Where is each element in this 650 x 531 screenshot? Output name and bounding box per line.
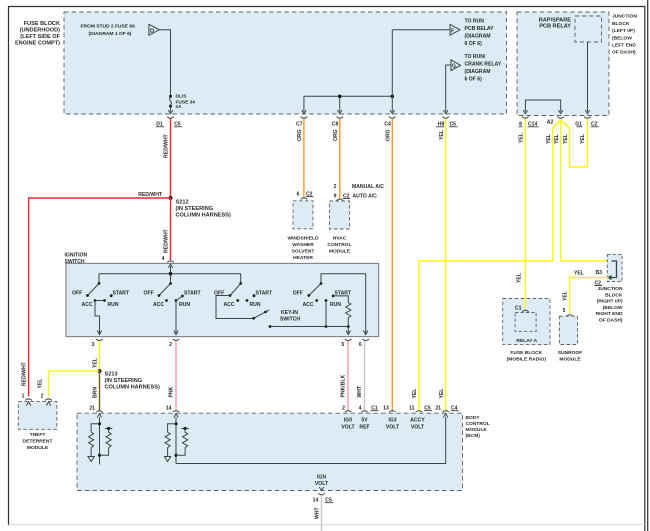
svg-text:(IN STEERING: (IN STEERING xyxy=(105,378,143,384)
svg-text:YEL: YEL xyxy=(574,271,584,277)
wire WHT ignition 6 to BCM 4 xyxy=(364,341,366,412)
HVAC control module box xyxy=(330,201,350,229)
svg-text:PNK/BLK: PNK/BLK xyxy=(341,375,347,398)
wire RED/WHT fuse to S212 xyxy=(170,119,172,198)
wire RED/WHT S212 to theft deterrent module xyxy=(29,198,171,397)
windshield washer solvent heater label xyxy=(288,236,319,262)
svg-text:OFF: OFF xyxy=(72,290,82,296)
svg-text:(IN STEERING: (IN STEERING xyxy=(176,206,214,212)
BCM label xyxy=(466,415,490,439)
svg-text:F: F xyxy=(451,28,454,34)
BCM input labels xyxy=(341,418,425,431)
svg-text:MODULE: MODULE xyxy=(466,427,488,433)
svg-text:OFF: OFF xyxy=(144,290,154,296)
wire YEL ignition 3 to S213 xyxy=(99,341,101,371)
BCM entry 14 xyxy=(166,406,179,413)
svg-text:PNK: PNK xyxy=(169,386,175,397)
svg-text:WHT: WHT xyxy=(357,385,363,397)
svg-text:COLUMN HARNESS): COLUMN HARNESS) xyxy=(176,213,231,219)
svg-text:TO RUN/: TO RUN/ xyxy=(465,54,486,60)
svg-text:ORG: ORG xyxy=(385,129,391,141)
wire WHT IGN VOLT xyxy=(321,496,323,531)
svg-text:BLOCK: BLOCK xyxy=(612,21,630,27)
svg-text:MODULE: MODULE xyxy=(329,249,351,255)
svg-text:S212: S212 xyxy=(176,200,189,206)
BCM entry arrows 21 14 21C4 xyxy=(97,414,448,418)
wire ORG C8 to HVAC xyxy=(339,119,341,200)
BCM entry 13 C1 xyxy=(371,406,396,413)
svg-text:AUTO A/C: AUTO A/C xyxy=(353,193,378,199)
svg-text:ORG: ORG xyxy=(297,129,303,141)
svg-text:DLIS: DLIS xyxy=(176,94,188,100)
svg-text:YEL: YEL xyxy=(517,273,523,283)
svg-text:VOLT: VOLT xyxy=(341,425,355,431)
splice S213 xyxy=(98,369,160,390)
svg-text:HEATER: HEATER xyxy=(293,255,313,261)
svg-text:ACC: ACC xyxy=(153,302,164,308)
wire YEL A2 right to G1 xyxy=(561,119,588,167)
theft deterrent module box xyxy=(18,402,57,430)
svg-text:OF DASH): OF DASH) xyxy=(599,318,623,324)
svg-text:BRN: BRN xyxy=(93,387,99,398)
svg-text:G: G xyxy=(452,64,456,70)
svg-text:(RIGHT I/P): (RIGHT I/P) xyxy=(597,299,623,305)
svg-text:RED/WHT: RED/WHT xyxy=(164,133,170,158)
fuse DLIS FUSE 34 2A xyxy=(168,95,172,114)
BCM entry 11 C5 xyxy=(409,406,432,413)
svg-text:6 OF 6): 6 OF 6) xyxy=(465,77,483,83)
fuse block (underhood) label xyxy=(15,21,61,47)
svg-text:IG3: IG3 xyxy=(388,418,396,424)
svg-text:MANUAL A/C: MANUAL A/C xyxy=(352,184,384,190)
junction block (right) box xyxy=(607,254,622,281)
svg-text:4: 4 xyxy=(359,406,362,412)
svg-text:(MOBILE RADIO): (MOBILE RADIO) xyxy=(507,357,547,363)
relay A box xyxy=(515,313,536,332)
sunroof module box xyxy=(559,316,577,344)
svg-text:YEL: YEL xyxy=(563,291,569,301)
svg-text:RUN: RUN xyxy=(179,302,190,308)
svg-text:IGN: IGN xyxy=(317,475,326,481)
junction block (right) label xyxy=(596,286,623,324)
junction block internal bracket xyxy=(523,100,563,114)
ignition switch label xyxy=(65,253,88,266)
connector entry 4 (ignition switch) xyxy=(162,256,174,262)
ignition switch box xyxy=(66,263,379,336)
svg-text:WASHER: WASHER xyxy=(292,242,314,248)
top box internal wires to C7 C8 C4 xyxy=(302,30,450,114)
svg-text:1: 1 xyxy=(22,394,25,400)
svg-text:MODULE: MODULE xyxy=(559,357,581,363)
svg-text:RED/WHT: RED/WHT xyxy=(164,228,170,253)
wire YEL S213 to theft deterrent 2 xyxy=(49,371,100,396)
svg-text:13: 13 xyxy=(383,406,389,412)
svg-text:RELAY A: RELAY A xyxy=(516,338,537,344)
RAP/SPARE PCB relay box xyxy=(575,16,602,42)
wire YEL C2 to sunroof module xyxy=(570,278,609,314)
BCM entry 21 C4 xyxy=(435,406,458,413)
connector exit D1 C5 xyxy=(156,117,182,128)
svg-text:IGNITION: IGNITION xyxy=(65,253,88,259)
wire 4 entry into bus xyxy=(168,264,172,274)
svg-text:YEL: YEL xyxy=(439,389,445,399)
rap/spare relay wire to G1 xyxy=(585,42,589,114)
svg-text:(BCM): (BCM) xyxy=(466,433,481,439)
switch 3 xyxy=(214,274,273,308)
svg-text:VOLT: VOLT xyxy=(411,425,425,431)
svg-text:14: 14 xyxy=(166,406,172,412)
svg-text:A2: A2 xyxy=(547,120,554,126)
switch 1 xyxy=(72,274,130,335)
svg-text:BLOCK: BLOCK xyxy=(605,292,623,298)
svg-text:RIGHT END: RIGHT END xyxy=(596,311,623,317)
svg-text:OF DASH): OF DASH) xyxy=(612,50,636,56)
svg-text:6: 6 xyxy=(297,191,300,197)
svg-text:YEL: YEL xyxy=(38,379,44,389)
junction block (top) box xyxy=(517,12,609,116)
svg-text:YEL: YEL xyxy=(519,133,525,143)
wire ORG C7 to washer heater xyxy=(303,119,305,199)
svg-text:14: 14 xyxy=(313,498,319,504)
svg-text:ACCY: ACCY xyxy=(410,418,425,424)
wire ORG C4 to BCM 13 xyxy=(391,119,393,412)
junction block (right) internal connector xyxy=(607,261,617,280)
svg-text:CRANK RELAY: CRANK RELAY xyxy=(465,62,502,68)
connector exits ignition switch 3 2 5 6 xyxy=(92,339,369,348)
svg-text:MODULE: MODULE xyxy=(27,445,49,451)
IGN VOLT exit xyxy=(313,487,333,504)
fuse block (mobile radio) label xyxy=(507,350,547,363)
svg-text:COLUMN HARNESS): COLUMN HARNESS) xyxy=(105,385,160,391)
key-in switch label xyxy=(280,310,300,322)
sunroof module label xyxy=(558,350,582,363)
svg-text:C8: C8 xyxy=(332,122,339,128)
svg-text:WHT: WHT xyxy=(315,507,321,519)
svg-text:11: 11 xyxy=(409,406,415,412)
wire PNK ignition 2 to BCM 14 xyxy=(175,341,177,412)
svg-text:HVAC: HVAC xyxy=(333,236,347,242)
svg-text:JUNCTION: JUNCTION xyxy=(598,286,623,292)
svg-text:PCB RELAY: PCB RELAY xyxy=(465,26,495,32)
svg-text:2: 2 xyxy=(41,394,44,400)
svg-text:YEL: YEL xyxy=(554,134,560,144)
connector exits C7 C8 C4 H8 C5 xyxy=(296,117,458,128)
svg-text:YEL: YEL xyxy=(563,134,569,144)
switch 4 start contact and resistor xyxy=(332,295,351,335)
washer heater connector 6 C2 xyxy=(297,191,314,199)
wire YEL A2 middle to junction block B3 xyxy=(561,120,612,261)
svg-text:2: 2 xyxy=(169,342,172,348)
svg-text:WINDSHIELD: WINDSHIELD xyxy=(288,236,319,242)
node bus/wire4 xyxy=(169,272,173,276)
key-in switch wiring xyxy=(216,296,269,320)
BCM entry 21 xyxy=(89,406,102,413)
svg-text:C7: C7 xyxy=(296,122,303,128)
svg-text:DETERRENT: DETERRENT xyxy=(23,439,53,445)
svg-text:IG0: IG0 xyxy=(344,418,352,424)
wire YEL 8 C14 to relay A C1 xyxy=(524,119,526,308)
svg-text:C1: C1 xyxy=(515,306,522,312)
svg-text:LEFT END: LEFT END xyxy=(612,43,636,49)
svg-text:(BELOW: (BELOW xyxy=(612,35,632,41)
BCM entry 2 xyxy=(342,406,351,413)
BCM box xyxy=(77,413,463,490)
BCM resistor network 2 xyxy=(165,417,189,464)
svg-text:RED/WHT: RED/WHT xyxy=(22,361,28,386)
svg-text:CONTROL: CONTROL xyxy=(327,242,351,248)
connector exits 8 C14 / A2 / G1 C2 xyxy=(519,117,599,128)
svg-text:YEL: YEL xyxy=(580,134,586,144)
svg-text:THEFT: THEFT xyxy=(30,432,46,438)
svg-text:YEL: YEL xyxy=(93,358,99,368)
svg-text:4: 4 xyxy=(162,256,165,262)
svg-text:9: 9 xyxy=(334,193,337,199)
svg-text:RUN: RUN xyxy=(330,302,341,308)
svg-text:YEL: YEL xyxy=(439,130,445,140)
svg-text:2: 2 xyxy=(342,406,345,412)
wire BRN S213 to BCM 21 xyxy=(99,371,101,411)
wire YEL into relay A xyxy=(524,299,526,309)
splice S212 xyxy=(169,196,231,219)
wire to run/crank relay xyxy=(444,65,452,114)
wire YEL H8 to BCM 21 C4 xyxy=(445,119,447,412)
svg-text:YEL: YEL xyxy=(412,389,418,399)
wire RED/WHT S212 to ignition switch xyxy=(170,198,172,260)
svg-text:6 OF 6): 6 OF 6) xyxy=(465,41,483,47)
wire from triangle D to fuse xyxy=(159,30,170,95)
switch 2 xyxy=(144,274,202,335)
switch 4 xyxy=(293,274,368,335)
ignition bus wire xyxy=(99,273,241,275)
theft deterrent connector entries 1 2 xyxy=(22,394,52,401)
svg-text:2: 2 xyxy=(334,184,337,190)
svg-text:REF: REF xyxy=(359,425,369,431)
svg-text:6: 6 xyxy=(359,342,362,348)
svg-text:B3: B3 xyxy=(596,270,603,276)
svg-text:FROM STUD 2 FUSE 66: FROM STUD 2 FUSE 66 xyxy=(81,24,136,30)
svg-text:SWITCH: SWITCH xyxy=(280,316,300,322)
svg-text:FUSE BLOCK: FUSE BLOCK xyxy=(24,21,60,27)
svg-text:ACC: ACC xyxy=(303,302,314,308)
svg-text:START: START xyxy=(113,290,130,296)
to run/crank relay label xyxy=(465,54,502,83)
svg-text:OFF: OFF xyxy=(293,290,303,296)
svg-text:3: 3 xyxy=(92,342,95,348)
svg-text:SOLVENT: SOLVENT xyxy=(292,249,315,255)
svg-text:YEL: YEL xyxy=(546,134,552,144)
wire PNK/BLK ignition 5 to BCM 2 xyxy=(347,341,349,412)
svg-text:(UNDERHOOD): (UNDERHOOD) xyxy=(20,28,61,34)
windshield washer solvent heater box xyxy=(293,201,313,229)
connector triangle G (to run/crank relay) xyxy=(451,60,461,71)
svg-text:VOLT: VOLT xyxy=(315,481,329,487)
svg-text:KEY-IN: KEY-IN xyxy=(281,310,298,316)
svg-text:START: START xyxy=(184,290,201,296)
svg-text:(DIAGRAM: (DIAGRAM xyxy=(465,69,491,75)
svg-text:5V: 5V xyxy=(361,418,368,424)
key-in output wire xyxy=(269,302,349,328)
IGN VOLT output xyxy=(315,475,329,488)
svg-text:D: D xyxy=(150,28,154,34)
HVAC connector labels xyxy=(334,184,385,201)
HVAC control module label xyxy=(327,236,351,255)
fuse block (mobile radio) outer box xyxy=(503,299,550,345)
svg-text:(LEFT I/P): (LEFT I/P) xyxy=(612,28,635,34)
BCM entry 4 xyxy=(359,406,368,413)
junction block (top) label xyxy=(612,14,637,56)
svg-text:SUNROOF: SUNROOF xyxy=(558,350,582,356)
to run PCB relay label xyxy=(465,19,495,48)
connector triangle D (from stud 2 fuse 66) xyxy=(149,24,159,35)
svg-text:VOLT: VOLT xyxy=(386,425,400,431)
svg-text:SWITCH: SWITCH xyxy=(65,259,85,265)
svg-text:21: 21 xyxy=(89,406,95,412)
from stud 2 fuse 66 label xyxy=(81,24,136,38)
svg-text:RUN: RUN xyxy=(108,302,119,308)
svg-text:(DIAGRAM: (DIAGRAM xyxy=(465,34,491,40)
svg-text:PCB RELAY: PCB RELAY xyxy=(539,24,571,30)
svg-text:FUSE BLOCK: FUSE BLOCK xyxy=(510,350,542,356)
RAP/SPARE PCB relay label xyxy=(539,18,571,30)
BCM resistor network 1 xyxy=(88,417,112,464)
svg-text:(DIAGRAM 1 OF 6): (DIAGRAM 1 OF 6) xyxy=(89,31,132,37)
theft deterrent module label xyxy=(23,432,53,451)
theft deterrent entry arrows xyxy=(26,402,30,406)
svg-text:5: 5 xyxy=(341,342,344,348)
border frame xyxy=(8,6,10,525)
svg-text:2A: 2A xyxy=(176,104,183,110)
svg-text:RED/WHT: RED/WHT xyxy=(138,192,163,198)
svg-text:(LEFT SIDE OF: (LEFT SIDE OF xyxy=(20,34,60,40)
svg-text:BODY: BODY xyxy=(466,415,481,421)
BCM internal wire 21 C4 to resistor network 2 xyxy=(176,417,446,464)
svg-text:ORG: ORG xyxy=(333,129,339,141)
fuse label xyxy=(176,94,196,110)
svg-text:ACC: ACC xyxy=(82,302,93,308)
svg-text:CONTROL: CONTROL xyxy=(466,421,490,427)
svg-text:5: 5 xyxy=(563,308,566,314)
svg-text:START: START xyxy=(256,290,273,296)
wire YEL A2 branch left to BCM 11 xyxy=(419,120,561,412)
relay A connector C1 xyxy=(515,306,529,312)
svg-text:S213: S213 xyxy=(105,372,118,378)
svg-text:ENGINE COMPT): ENGINE COMPT) xyxy=(15,41,60,47)
svg-text:RUN: RUN xyxy=(250,302,261,308)
connector triangle B (to run PCB relay) xyxy=(450,24,460,35)
sunroof connector 5 xyxy=(563,308,573,316)
svg-text:ACC: ACC xyxy=(224,302,235,308)
svg-text:TO RUN: TO RUN xyxy=(465,19,485,25)
svg-text:(BELOW: (BELOW xyxy=(603,305,623,311)
svg-text:JUNCTION: JUNCTION xyxy=(612,14,637,20)
fuse block (underhood) box xyxy=(64,12,507,114)
C2 label xyxy=(594,280,602,286)
svg-text:C4: C4 xyxy=(384,122,391,128)
svg-text:21: 21 xyxy=(435,406,441,412)
